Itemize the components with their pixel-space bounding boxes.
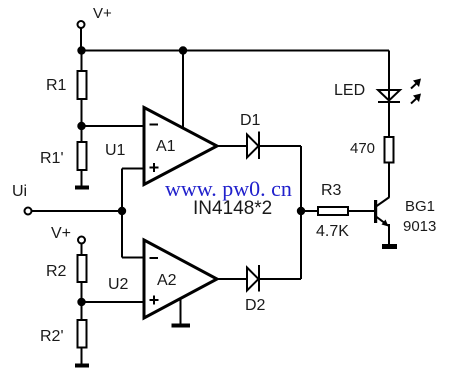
- svg-text:U1: U1: [105, 142, 126, 159]
- svg-text:9013: 9013: [403, 218, 436, 235]
- svg-text:U2: U2: [108, 276, 129, 293]
- svg-text:R1': R1': [40, 150, 64, 167]
- svg-text:470: 470: [350, 140, 375, 157]
- svg-text:D1: D1: [240, 112, 261, 129]
- svg-text:BG1: BG1: [405, 198, 435, 215]
- svg-text:www. pw0. cn: www. pw0. cn: [165, 176, 292, 201]
- svg-text:A1: A1: [156, 138, 176, 155]
- svg-text:D2: D2: [245, 297, 266, 314]
- svg-text:V+: V+: [51, 225, 71, 242]
- svg-text:V+: V+: [93, 5, 112, 22]
- svg-text:R2: R2: [46, 263, 67, 280]
- svg-text:IN4148*2: IN4148*2: [193, 198, 272, 219]
- svg-text:R2': R2': [40, 328, 64, 345]
- svg-text:A2: A2: [157, 272, 177, 289]
- svg-text:R3: R3: [321, 182, 342, 199]
- svg-text:Ui: Ui: [12, 183, 27, 200]
- svg-text:R1: R1: [46, 77, 67, 94]
- svg-text:LED: LED: [334, 82, 365, 99]
- svg-text:4.7K: 4.7K: [316, 223, 349, 240]
